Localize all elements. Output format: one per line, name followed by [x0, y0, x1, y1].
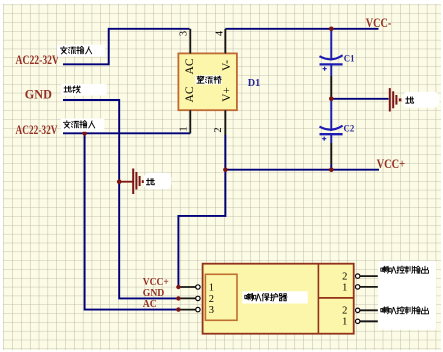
wire AC input 2 to bridge pin 1: [63, 132, 190, 134]
junction bridge pin2 / VCC+: [223, 167, 228, 172]
svg-text:3: 3: [179, 31, 190, 36]
svg-text:C1: C1: [344, 54, 355, 65]
svg-text:AC: AC: [184, 58, 196, 74]
left ground symbol: [119, 181, 132, 183]
connector right pin 2: [356, 274, 360, 278]
right ground label 地: [403, 92, 440, 108]
label 喇叭控制输出 (bottom): [381, 307, 388, 314]
wire GND input down to connector pin 2: [63, 100, 180, 298]
wire AC input 1 to bridge pin 3: [63, 29, 190, 65]
connector right pin 1: [356, 285, 360, 289]
svg-text:VCC+: VCC+: [143, 277, 169, 288]
left ground label 地: [144, 173, 172, 190]
svg-text:GND: GND: [25, 87, 52, 101]
wire AC input 2 down to connector pin 3: [85, 133, 180, 309]
wire bridge pin 2 to VCC+ and connector pin 1: [178, 135, 225, 287]
junction C2 / VCC+: [329, 167, 334, 172]
svg-text:1: 1: [209, 283, 214, 294]
svg-text:VCC+: VCC+: [377, 157, 406, 171]
label 喇叭保护器: [242, 291, 308, 303]
wire C2 top lead: [330, 99, 332, 131]
svg-text:1: 1: [342, 282, 347, 293]
wire C1 top to VCC- rail: [330, 29, 332, 61]
junction VCC- / C1: [329, 27, 334, 32]
svg-text:2: 2: [209, 294, 214, 305]
wire-pin connection dots: [176, 285, 180, 289]
label 交流输入 (bottom): [61, 119, 105, 132]
wire VCC+ rail: [225, 169, 379, 171]
right ground symbol: [389, 88, 391, 111]
svg-text:1: 1: [179, 127, 190, 132]
svg-text:AC: AC: [184, 86, 196, 102]
bridge label 整流桥: [195, 75, 222, 84]
pin 3: [189, 29, 191, 54]
svg-text:1: 1: [342, 317, 347, 328]
inner sub-box: [205, 274, 237, 320]
pin 2: [224, 110, 226, 135]
svg-text:GND: GND: [143, 288, 165, 299]
junction AC input 2: [82, 131, 87, 136]
svg-text:V+: V+: [221, 87, 233, 102]
label 交流输入 (top): [57, 45, 105, 57]
wire C1 bottom lead: [330, 65, 332, 76]
wire C2 bottom lead: [330, 135, 332, 143]
speaker protector body: [203, 264, 354, 334]
internal divider horizontal: [318, 297, 353, 299]
connector right pin 1: [356, 319, 360, 323]
svg-text:VCC-: VCC-: [366, 16, 392, 30]
internal divider vertical: [317, 264, 319, 334]
svg-text:2: 2: [342, 306, 347, 317]
svg-text:AC: AC: [143, 299, 157, 310]
connector left pin 3: [180, 309, 196, 311]
junction GND / left ground: [117, 179, 122, 184]
junction C1/C2 midpoint: [329, 97, 334, 102]
svg-text:3: 3: [209, 305, 214, 316]
output label box: [378, 261, 436, 330]
connector left pin 1: [180, 286, 196, 288]
svg-text:4: 4: [215, 31, 226, 36]
pin 1: [189, 110, 191, 133]
capacitor C1: [320, 55, 343, 59]
svg-text:2: 2: [213, 128, 224, 133]
capacitor C2: [320, 126, 343, 130]
label 地线: [61, 84, 106, 96]
svg-text:C2: C2: [344, 124, 355, 135]
wire mid junction to ground: [331, 98, 388, 100]
svg-text:D1: D1: [248, 77, 260, 89]
svg-text:AC22-32V: AC22-32V: [16, 123, 58, 137]
svg-text:AC22-32V: AC22-32V: [16, 53, 60, 67]
wire VCC- rail: [225, 28, 378, 30]
pin 4: [224, 29, 226, 54]
svg-text:2: 2: [342, 272, 347, 283]
connector right pin 2: [356, 308, 360, 312]
label 喇叭控制输出 (top): [381, 266, 388, 273]
bridge rectifier D1 body: [178, 53, 237, 110]
svg-text:V-: V-: [221, 60, 233, 71]
connector left pin 2: [180, 297, 196, 299]
